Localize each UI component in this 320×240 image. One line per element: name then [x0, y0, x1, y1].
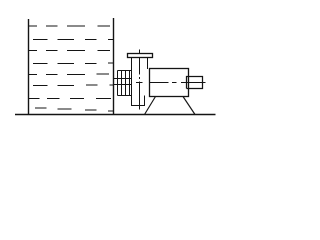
pump casing foot box [132, 96, 145, 106]
discharge flange bar [128, 54, 153, 58]
water dash row 6 [33, 84, 114, 87]
suction flange stack top line [118, 70, 132, 72]
ground line [15, 114, 216, 116]
water dash row 4 [33, 62, 114, 64]
tank left wall [28, 19, 30, 115]
water dash row 5 [29, 73, 110, 76]
water dash row 3 [29, 50, 111, 52]
water dash row 8 [35, 108, 114, 111]
suction pipe top wall [114, 78, 132, 80]
suction flange stack bottom line [118, 95, 132, 97]
pump bearing body [150, 69, 189, 97]
discharge pipe left wall / casing left wall [131, 58, 133, 96]
support trapezoid left slant [145, 97, 156, 115]
suction flange plate 3 [125, 71, 127, 96]
water dash row 7 [29, 98, 112, 100]
tank right wall [113, 18, 115, 115]
suction flange plate 2 [121, 71, 123, 96]
support trapezoid right slant [183, 97, 195, 115]
suction flange plate 4 [129, 71, 131, 96]
suction pipe bottom wall [114, 84, 132, 86]
suction flange plate 1 [117, 71, 119, 96]
horizontal centerline of pump shaft (dash-dot) [136, 82, 206, 84]
water dash row 2 [33, 39, 114, 41]
water dash row 1 (surface) [29, 25, 111, 27]
vertical centerline of pump casing (dash-dot) [139, 50, 141, 110]
shaft coupling box [187, 77, 203, 89]
discharge pipe right wall [147, 58, 149, 70]
